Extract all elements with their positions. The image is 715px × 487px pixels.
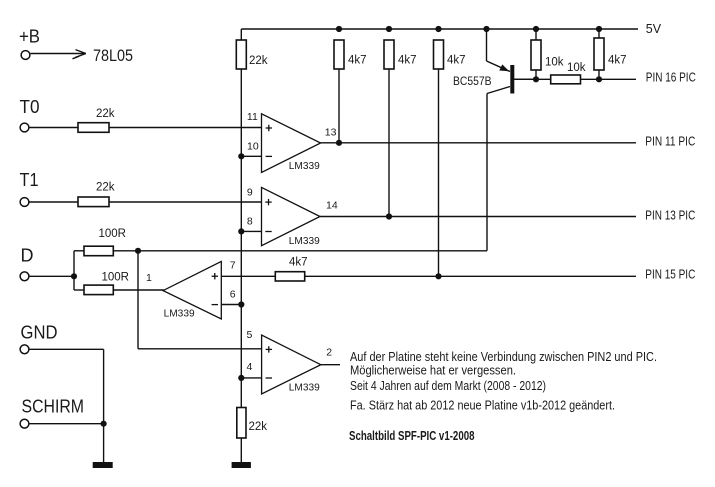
svg-text:D: D [21,246,34,266]
svg-text:4k7: 4k7 [447,55,466,67]
resistor R5 100R [84,285,113,295]
svg-text:10k: 10k [545,57,564,69]
wire GND vertical [103,349,105,462]
wire bus to bottom ground [240,438,242,463]
wire R5 output to U1C output pin1 [113,289,164,291]
wire R2 to U1A pin11 [109,127,262,129]
node +B terminal [21,51,30,60]
node junction rail emitter [483,26,489,32]
svg-text:10k: 10k [567,62,586,74]
svg-text:10: 10 [247,140,259,152]
wire 4k7 R6 drop to PIN11 row [338,69,340,143]
svg-text:1: 1 [146,272,152,284]
resistor R6 4k7 [334,40,344,69]
svg-text:LM339: LM339 [289,382,320,394]
svg-text:11: 11 [247,111,258,123]
svg-text:78L05: 78L05 [93,46,133,65]
svg-text:22k: 22k [249,421,268,433]
transistor Q1 BC557B [499,64,536,93]
wire 4k7 R11 legs [598,29,600,79]
wire 10k R9 bottom leg [535,70,537,79]
node SCHIRM terminal [20,419,29,428]
wire transistor collector drop [487,87,510,251]
wire pin6 stub [221,304,241,306]
svg-text:LM339: LM339 [289,160,320,172]
node T1 terminal [20,198,29,207]
svg-text:PIN 16 PIC: PIN 16 PIC [646,71,696,85]
svg-text:+B: +B [19,27,40,47]
wire pin8 stub [241,230,261,232]
wire U1A output PIN11 row [321,142,636,144]
wire R3 to U1B pin9 [109,201,262,203]
svg-text:PIN 15 PIC: PIN 15 PIC [645,268,695,282]
wire pin10 stub [241,155,261,157]
wire PIN15 row [305,275,636,277]
resistor R10 10k horizontal [551,75,581,84]
wire stub to R5 [74,289,84,291]
svg-text:22k: 22k [96,182,115,194]
svg-text:100R: 100R [102,271,130,283]
wire T0 to R2 [30,127,79,129]
svg-text:4k7: 4k7 [348,55,367,67]
node junction bus pin10 [238,153,244,159]
node junction rail R6 [336,26,342,32]
wire U1D output pin2 [321,364,340,366]
node junction SCHIRM [101,421,107,427]
node junction D split [71,273,77,279]
wire D to junction [30,275,75,277]
svg-text:5: 5 [247,329,253,341]
svg-text:13: 13 [325,127,337,139]
svg-text:T1: T1 [20,170,39,190]
node junction rail R8 [435,26,441,32]
svg-text:4k7: 4k7 [289,256,308,268]
svg-text:22k: 22k [249,55,268,67]
resistor R9 10k vertical [531,40,541,70]
node junction rail R11 [596,26,602,32]
wire D junction vertical [73,251,75,290]
op-amp U1C left-pointing [163,261,221,319]
wire vertical from R4 row to U1D pin5 [137,251,139,349]
svg-text:Seit 4 Jahren auf dem Markt (2: Seit 4 Jahren auf dem Markt (2008 - 2012… [350,378,546,393]
wire PIN16 row [514,78,636,80]
wire pin7 row [221,275,275,277]
node junction PIN11 R6 [336,140,342,146]
wire pin5 row [138,348,262,350]
node junction R4 row [135,248,141,254]
resistor R12 4k7 horizontal [275,272,304,281]
svg-text:Fa. Stärz hat ab 2012 neue Pla: Fa. Stärz hat ab 2012 neue Platine v1b-2… [350,398,615,413]
svg-text:T0: T0 [20,97,40,117]
resistor R1 22k top [236,40,246,69]
wire 5V rail [241,29,638,40]
wire R4 output row to transistor collector [113,250,487,252]
svg-text:PIN 13 PIC: PIN 13 PIC [645,209,695,223]
resistor R8 4k7 [434,40,444,69]
wire GND horizontal [30,348,104,350]
svg-text:4k7: 4k7 [608,55,627,67]
svg-text:LM339: LM339 [164,308,195,320]
svg-text:SCHIRM: SCHIRM [22,397,85,417]
svg-text:100R: 100R [99,228,127,240]
svg-text:7: 7 [230,260,236,272]
node junction base R9 [533,76,539,82]
ground symbol left [93,462,113,468]
wire 4k7 R7 drop to PIN13 row [388,69,390,217]
resistor R11 4k7 right [594,38,604,70]
resistor R3 22k T1 [78,197,109,207]
resistor R13 22k bottom [237,408,246,439]
wire divider bus vertical [240,69,242,408]
op-amp U1B [262,187,321,245]
op-amp U1A [262,114,321,173]
node junction bus pin4 [238,375,244,381]
svg-text:2: 2 [326,347,332,359]
svg-text:GND: GND [21,322,58,342]
node D terminal [20,272,29,281]
node junction PIN15 R8 [435,273,441,279]
node junction bus pin6 [238,301,244,307]
wire pin4 stub [241,377,261,379]
op-amp U1D [262,335,321,394]
node junction pin16 R11 [596,76,602,82]
svg-text:BC557B: BC557B [453,76,492,88]
svg-text:14: 14 [326,200,338,212]
wire stub to R4 [74,250,84,252]
svg-text:4: 4 [247,361,253,373]
svg-text:LM339: LM339 [289,235,320,247]
resistor R4 100R [84,246,113,256]
resistor R2 22k T0 [78,123,109,133]
svg-text:9: 9 [247,187,253,199]
svg-text:PIN 11 PIC: PIN 11 PIC [645,134,695,148]
svg-text:5V: 5V [646,22,662,36]
svg-text:Möglicherweise hat er vergesse: Möglicherweise hat er vergessen. [350,362,516,377]
node junction bus pin8 [238,228,244,234]
svg-text:4k7: 4k7 [398,55,417,67]
svg-text:Schaltbild SPF-PIC v1-2008: Schaltbild SPF-PIC v1-2008 [349,428,475,443]
node junction rail R7 [386,26,392,32]
svg-text:6: 6 [230,289,236,301]
resistor R7 4k7 [384,40,394,69]
wire 10k R9 top leg [535,29,537,40]
wire T1 to R3 [30,201,79,203]
wire U1B output PIN13 row [320,216,636,218]
node junction rail R9 [533,26,539,32]
wire SCHIRM horizontal [30,423,104,425]
svg-text:22k: 22k [96,108,115,120]
node T0 terminal [20,123,29,132]
wire transistor emitter to 5V [487,29,511,72]
wire +B arrow to 78L05 [31,50,87,59]
svg-text:8: 8 [247,216,253,228]
node junction PIN13 R7 [386,213,392,219]
wire 4k7 R8 drop to PIN15 row [438,69,440,276]
node GND terminal [20,345,29,354]
ground symbol bottom [232,462,251,468]
